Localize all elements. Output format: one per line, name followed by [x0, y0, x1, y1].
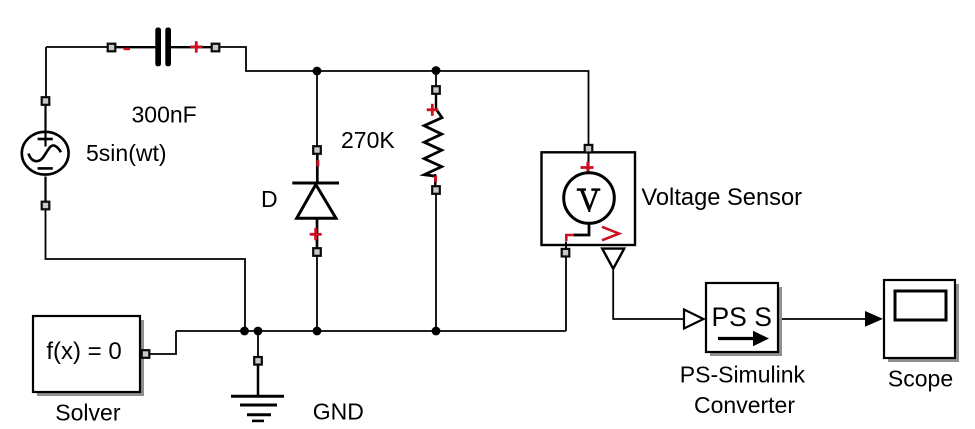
svg-text:Converter: Converter [694, 392, 795, 418]
svg-text:270K: 270K [341, 127, 395, 153]
svg-text:5sin(wt): 5sin(wt) [86, 140, 167, 166]
svg-text:PS-Simulink: PS-Simulink [680, 361, 806, 387]
svg-text:Voltage Sensor: Voltage Sensor [641, 185, 802, 211]
svg-text:D: D [261, 186, 278, 212]
svg-text:f(x) = 0: f(x) = 0 [46, 338, 121, 365]
svg-text:GND: GND [313, 399, 364, 425]
svg-text:Scope: Scope [888, 366, 953, 392]
svg-text:Solver: Solver [55, 400, 121, 426]
svg-text:PS S: PS S [712, 302, 772, 332]
svg-text:300nF: 300nF [132, 102, 197, 128]
